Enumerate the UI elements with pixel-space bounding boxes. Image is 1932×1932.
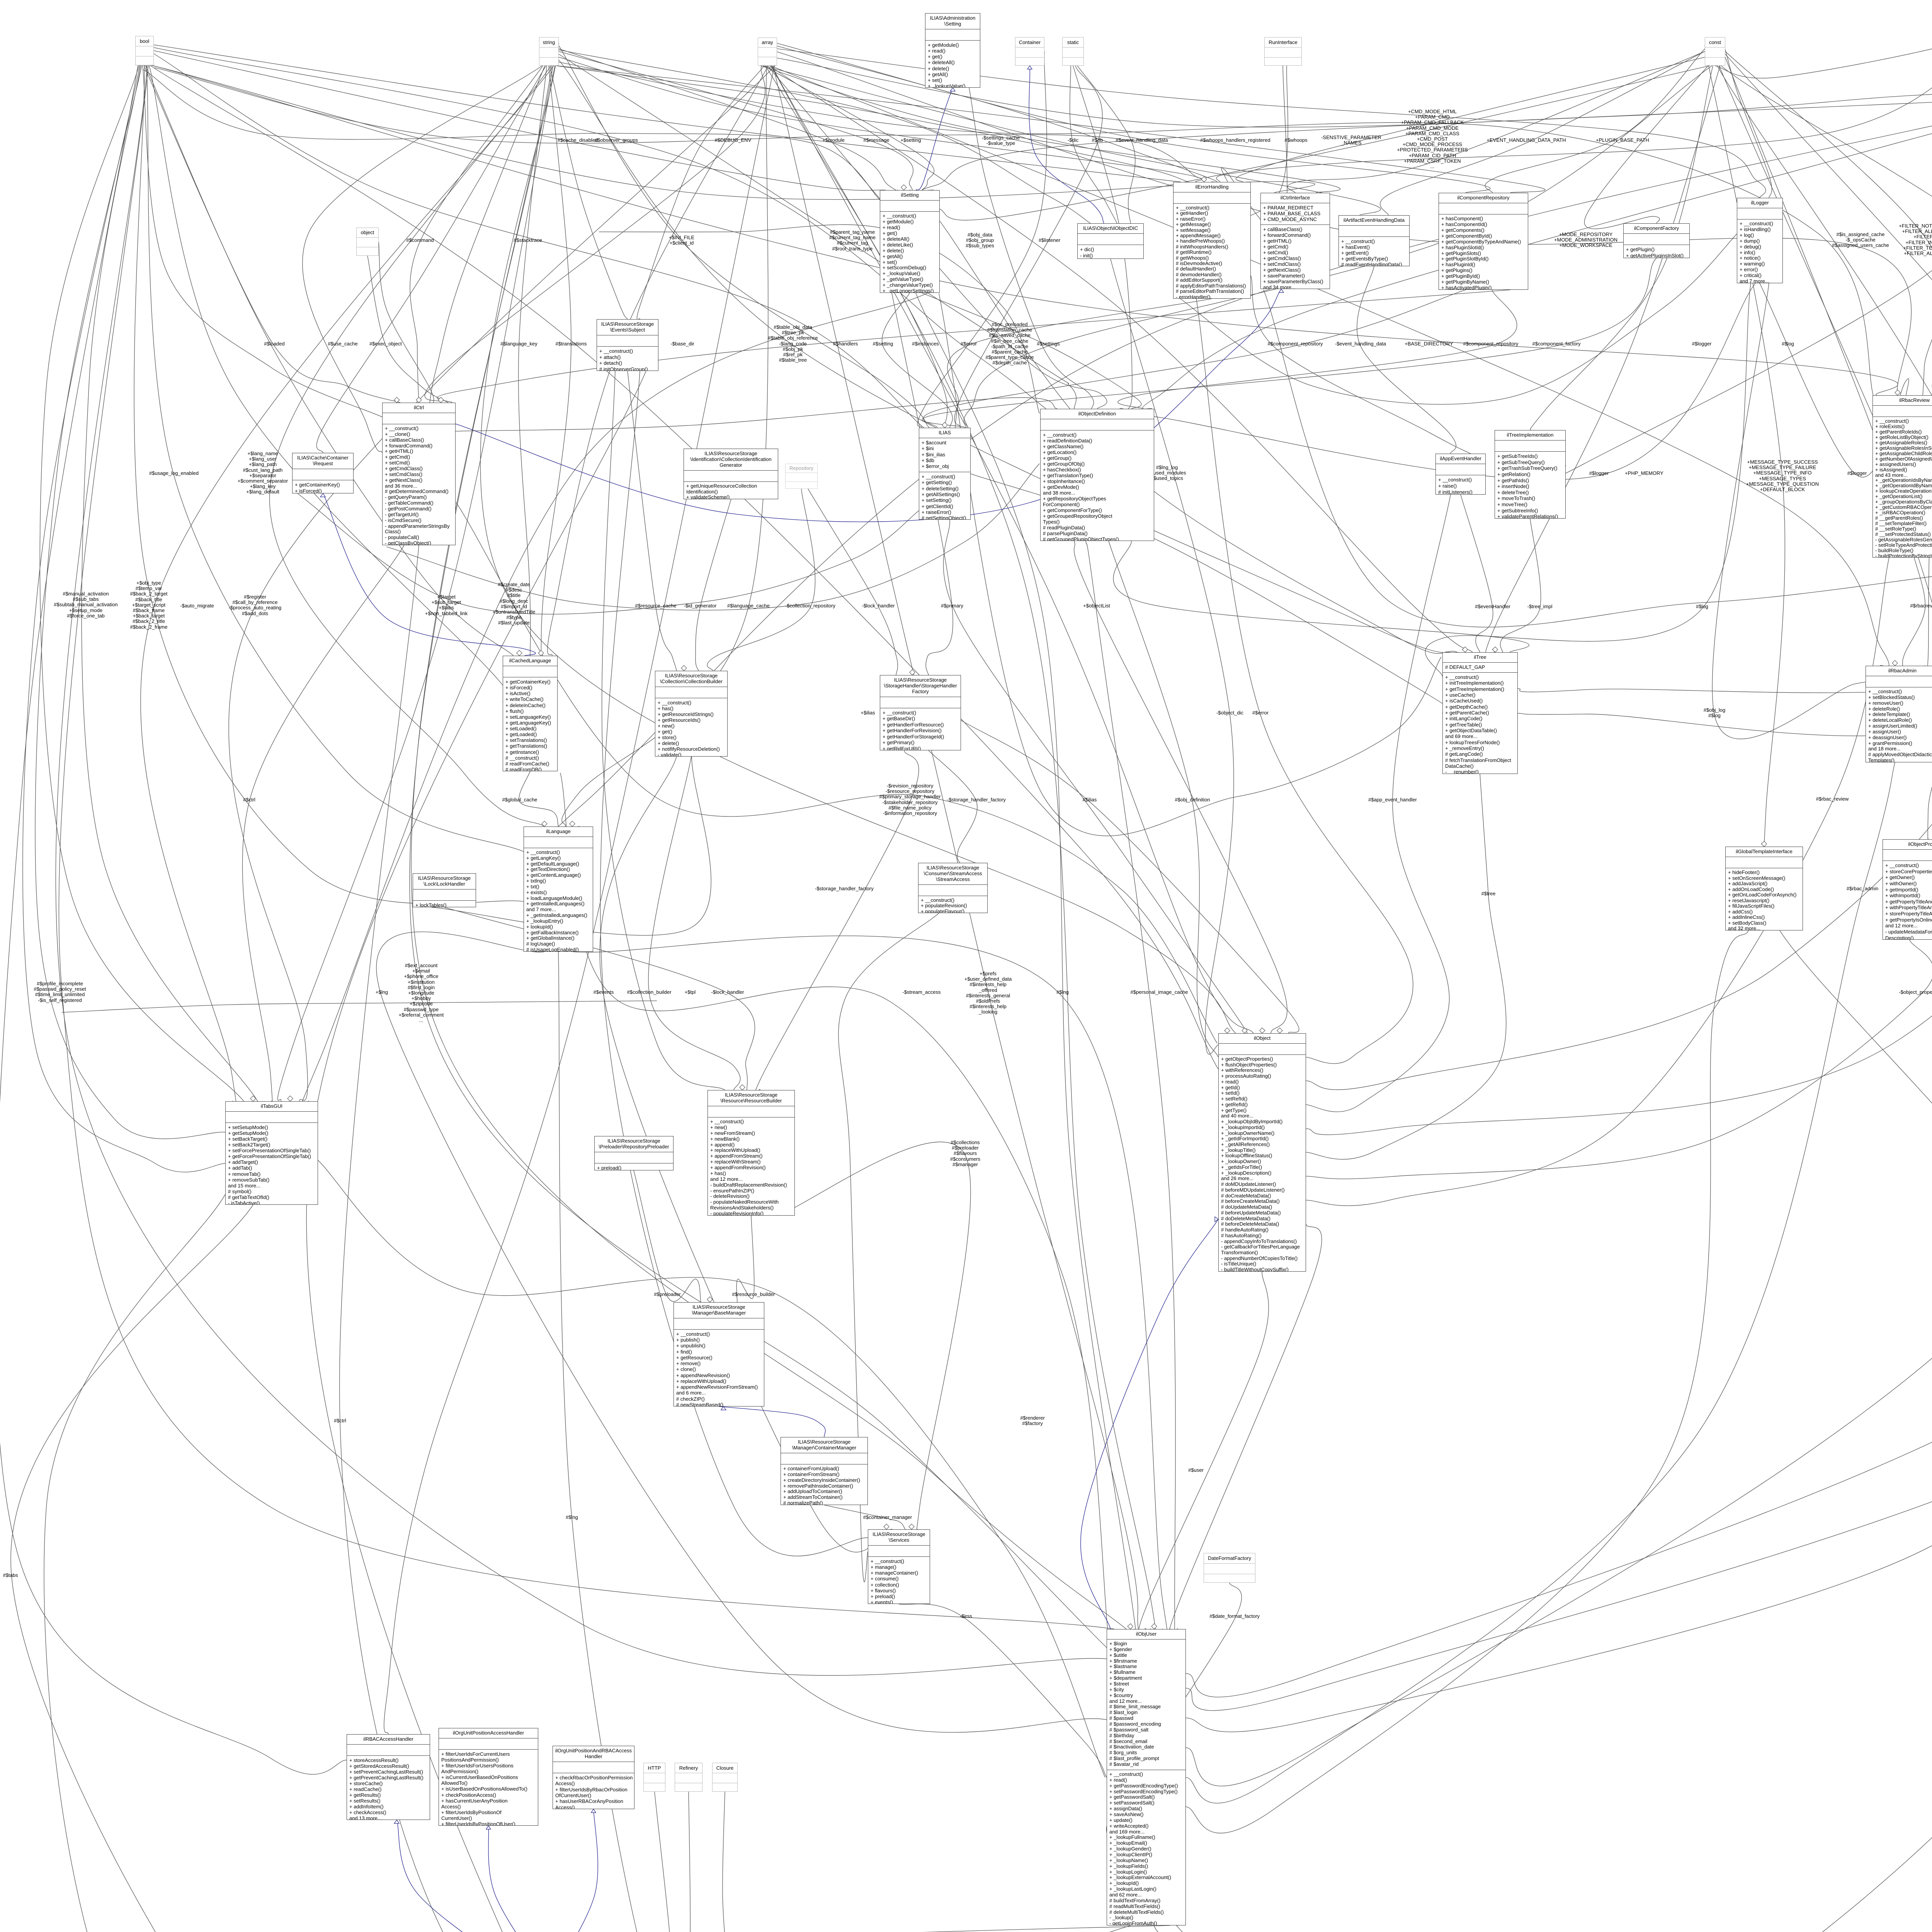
edge label #$collection_builder <box>549 990 750 995</box>
class box StorageHandlerFactory <box>880 675 961 750</box>
edge label +TABLE_OBJECT_DATA +LONG_DESC_LENGTH +TITLE_LENGTH +DESC_LEN <box>1917 595 1932 617</box>
class box const <box>1705 37 1725 66</box>
edge label +$lang_name +$lang_user +$lang_path #$cust_lang_path +$separ <box>162 451 363 495</box>
edge label #$error <box>868 341 1069 347</box>
class box ilComponentFactory <box>1623 223 1690 258</box>
generalization arrowhead <box>394 1820 399 1823</box>
inheritance edge <box>1081 1219 1218 1629</box>
association edge <box>1725 54 1932 598</box>
association edge <box>1705 46 1785 850</box>
edge label #$DEBUG_ENV <box>633 138 833 143</box>
edge label #$cache_disabled <box>477 138 678 143</box>
edge label ‑$revision_repository ‑$resource_repository #$primary_storag <box>810 783 1010 816</box>
edge label #$logger <box>1498 471 1699 476</box>
edge label #$resource_builder <box>653 1292 854 1297</box>
edge label +$objectList <box>996 603 1197 609</box>
edge label ‑$storage_handler_factory <box>744 886 945 891</box>
association edge <box>141 66 554 1118</box>
edge label #$user <box>1095 1468 1296 1473</box>
association edge <box>1236 57 1705 182</box>
association edge <box>340 545 772 1932</box>
association edge <box>769 66 1473 652</box>
class box ilOrgUnitPositionAndRBAC <box>553 1746 634 1809</box>
association edge <box>432 671 711 935</box>
association edge <box>602 371 725 1090</box>
class box ilObjectDIC <box>1077 223 1144 259</box>
class box ilTabsGUI <box>225 1101 318 1205</box>
association edge <box>23 65 225 1172</box>
association edge <box>773 66 1138 1629</box>
association edge <box>550 66 628 319</box>
association edge <box>154 48 1046 409</box>
edge label #$parent_tag_name #$current_tag_name #$current_tag #$root_tr <box>752 230 953 252</box>
edge label #$eventHandler <box>1392 604 1593 609</box>
aggregation diamond at ilTabsGUI <box>287 1096 293 1101</box>
association edge <box>1123 283 1755 480</box>
association edge <box>154 45 1181 182</box>
association edge <box>143 65 382 417</box>
class box ilTree <box>1442 652 1518 774</box>
aggregation diamond at ilObject <box>1277 1028 1282 1033</box>
edge label #$rbac_admin <box>1762 886 1932 891</box>
association edge <box>556 66 1189 182</box>
class box ilObject <box>1218 1033 1306 1272</box>
edge label #$observer_groups <box>516 138 717 143</box>
edge label #$handlers <box>745 341 946 347</box>
association edge <box>411 66 1126 1629</box>
edge label #$ctrl <box>240 1418 440 1423</box>
association edge <box>723 1925 1170 1932</box>
association edge <box>82 65 258 1101</box>
edge label #$lng_log #$used_modules #$used_topics <box>1066 465 1267 481</box>
edge label #$resource_cache <box>555 603 756 609</box>
edge label #$logger <box>1757 471 1932 476</box>
association edge <box>1485 49 1725 656</box>
association edge <box>824 1505 905 1529</box>
edge label #$obj_data #$obj_group #$sub_types <box>879 232 1080 249</box>
association edge <box>600 371 883 1556</box>
aggregation diamond at ilLanguage <box>542 821 547 827</box>
edge label +MESSAGE_TYPE_SUCCESS +MESSAGE_TYPE_FAILURE +MESSAGE_TYPE_IN <box>1682 459 1883 492</box>
edge label #$is_assigned_cache ‑$_opsCache #$assigned_users_cache <box>1760 232 1932 248</box>
edge label #$component_repository <box>1195 341 1396 347</box>
association edge <box>456 502 1217 1043</box>
association edge <box>1070 66 1117 223</box>
association edge <box>753 1925 1189 1932</box>
edge label #$exec_object <box>285 341 486 347</box>
association edge <box>1186 66 1932 1697</box>
association edge <box>1306 495 1451 1112</box>
edge label #$events <box>503 990 704 995</box>
association edge <box>1380 51 1705 215</box>
class box EventsSubject <box>597 319 658 371</box>
inheritance edge <box>456 289 1281 522</box>
aggregation diamond at ILIAS <box>942 422 947 428</box>
edge label #$whoops_handlers_registered <box>1135 138 1336 143</box>
edge label #$register #$call_by_reference ‑$process_auto_reating #$add_ <box>155 594 355 616</box>
class box AdminSetting <box>925 13 980 88</box>
edge label +CMD_MODE_HTML +PARAM_CMD +PARAM_CMD_FALLBACK +PARAM_CMD_MOD <box>1332 109 1533 169</box>
association edge <box>765 66 947 428</box>
aggregation diamond at iCtrl <box>416 397 422 403</box>
edge label #$date_format_factory <box>1134 1614 1335 1619</box>
association edge <box>1179 232 1739 404</box>
aggregation diamond at ilObject <box>1225 1028 1230 1033</box>
association edge <box>1074 541 1287 1033</box>
association edge <box>1186 643 1932 1732</box>
edge label ‑SENSTIVE_PARAMETER _NAMES <box>1251 135 1452 146</box>
class box ilOrgUnitPositionAccessHandler <box>439 1728 538 1826</box>
class box Refinery <box>675 1763 702 1792</box>
association edge <box>548 66 768 656</box>
class box ilTreeImplementation <box>1495 430 1566 519</box>
association edge <box>892 293 953 675</box>
class box ilRbacAdmin <box>1866 666 1932 762</box>
edge label #$ctrl <box>149 797 350 803</box>
association edge <box>154 51 886 190</box>
association edge <box>1118 290 1517 409</box>
association edge <box>1073 66 1132 410</box>
association edge <box>818 1924 1373 1932</box>
edge label +$module <box>733 138 934 143</box>
association edge <box>600 757 893 1552</box>
generalization arrowhead <box>1215 1217 1218 1222</box>
association edge <box>917 51 1047 428</box>
edge label #$oc_preloaded #$translation_cache #$is_saved_cache #$in_tre <box>909 322 1110 366</box>
association edge <box>229 66 775 1101</box>
class box ilRBACAccessHandler <box>347 1734 430 1820</box>
edge label #$event_handling_data <box>1041 138 1242 143</box>
association edge <box>1725 50 1772 198</box>
association edge <box>44 1194 753 1932</box>
association edge <box>40 65 244 1101</box>
association edge <box>1109 541 1218 1057</box>
edge label +$setting <box>810 138 1011 143</box>
edge label #$obj_definition <box>1092 797 1293 803</box>
association edge <box>961 720 1299 1033</box>
association edge <box>922 293 1141 409</box>
association edge <box>559 54 1076 409</box>
class box StreamAccess <box>918 863 988 913</box>
association edge <box>634 1170 701 1302</box>
association edge <box>707 489 815 671</box>
association edge <box>1287 43 1725 193</box>
association edge <box>1251 276 1471 454</box>
aggregation diamond at ilCachedLanguage <box>517 650 522 656</box>
association edge <box>772 66 1156 1639</box>
association edge <box>270 66 551 827</box>
edge label #$rbacreview <box>1825 603 1932 609</box>
class box ilArtifactEventHandlingData <box>1338 215 1410 266</box>
edge label #$db <box>997 138 1198 143</box>
edge label #$profile_incomplete #$passwd_policy_reset #$time_limit_unli <box>0 981 160 1003</box>
association edge <box>242 545 404 1105</box>
association edge <box>0 65 347 1774</box>
association edge <box>882 293 952 428</box>
association edge <box>56 65 1107 1675</box>
association edge <box>922 258 1656 428</box>
aggregation diamond at ilErrorHandling <box>1201 177 1207 182</box>
association edge <box>410 66 1121 1662</box>
association edge <box>1168 1224 1321 1637</box>
aggregation diamond at ResourceBuilder <box>740 1085 745 1090</box>
association edge <box>1064 1925 1131 1932</box>
edge label ‑$id_generator <box>600 603 801 609</box>
association edge <box>150 65 1218 1069</box>
edge label +$obj_type #$temp_var #$back_2_target #$back_title +$target_ <box>48 580 249 630</box>
association edge <box>943 520 1248 1035</box>
association edge <box>1518 65 1932 693</box>
aggregation diamond at iCtrl <box>438 397 444 403</box>
edge label +$tpl <box>590 990 791 995</box>
edge label #$rbac_review <box>1732 796 1932 802</box>
class box ilSetting <box>880 190 940 293</box>
association edge <box>560 773 1109 1642</box>
association edge <box>376 932 1130 1732</box>
edge label #$collections #$preloader #$flavours #$consumers #$manager <box>865 1140 1066 1167</box>
edge label #$usage_log_enabled <box>73 471 274 476</box>
association edge <box>628 371 677 671</box>
association edge <box>425 66 765 403</box>
association edge <box>1111 259 1234 1054</box>
edge label #$component_repository <box>1390 341 1591 347</box>
class box object <box>356 228 379 256</box>
edge label ‑$dic <box>973 138 1173 143</box>
association edge <box>947 299 1212 428</box>
edge label +$prefs +$user_defined_data #$interests_help _offered #$inte <box>888 971 1088 1015</box>
association edge <box>923 290 1466 428</box>
association edge <box>306 371 766 1932</box>
association edge <box>696 499 731 671</box>
edge label #$app_event_handler <box>1292 797 1493 803</box>
class box DateFormatFactory <box>1204 1553 1255 1583</box>
edge label #$language_cache <box>648 603 849 609</box>
aggregation diamond at ilTabsGUI <box>250 1096 256 1101</box>
class box bool <box>135 36 154 65</box>
association edge <box>1715 2 1932 78</box>
association edge <box>562 66 768 827</box>
association edge <box>59 65 1114 1629</box>
edge label ‑$lock_handler <box>778 603 979 609</box>
association edge <box>760 66 1340 193</box>
association edge <box>1425 283 1751 677</box>
association edge <box>1306 66 1932 1090</box>
class box ilObjUser <box>1107 1629 1186 1925</box>
edge label ‑$lock_handler <box>627 990 828 995</box>
edge label #$table_obj_data #$tree_pk #$table_obj_reference ‑$lang_code <box>692 325 893 363</box>
association edge <box>384 66 774 1734</box>
association edge <box>777 43 1490 193</box>
edge label #$use_cache <box>242 341 443 347</box>
edge label +$target +$sub_target +$tabs +$non_tabbed_link <box>346 594 547 616</box>
association edge <box>559 51 913 190</box>
association edge <box>771 66 1253 1033</box>
edge label #$global_cache <box>419 797 620 803</box>
association edge <box>155 68 1198 178</box>
association edge <box>1461 495 1493 652</box>
inheritance edge <box>916 88 953 190</box>
association edge <box>777 1142 971 1541</box>
edge label +BASE_DIRECTORY <box>1328 341 1529 347</box>
association edge <box>599 224 1039 413</box>
class box ilObjectDefinition <box>1040 409 1154 541</box>
association edge <box>559 50 1090 223</box>
association edge <box>755 750 919 1093</box>
edge label #$stacktrace <box>427 238 628 243</box>
association edge <box>1139 1272 1269 1632</box>
association edge <box>1264 290 1932 627</box>
generalization arrowhead <box>1279 289 1284 293</box>
aggregation diamond at ilCachedLanguage <box>538 650 544 656</box>
edge label #$log <box>1687 341 1888 347</box>
association edge <box>736 1216 754 1302</box>
association edge <box>655 1792 670 1932</box>
association edge <box>1186 762 1895 1803</box>
association edge <box>295 293 928 1123</box>
association edge <box>1500 519 1541 652</box>
edge label #$log <box>1602 604 1803 609</box>
association edge <box>149 65 520 709</box>
association edge <box>559 49 898 190</box>
edge label +EVENT_HANDLING_DATA_PATH <box>1426 138 1627 143</box>
association edge <box>480 43 1236 1033</box>
association edge <box>278 66 555 1101</box>
inheritance edge <box>397 1820 535 1932</box>
edge label #$logger <box>1601 341 1802 347</box>
edge label ‑$storage_handler_factory <box>876 797 1077 803</box>
edge label #$ext_account +$email +$phone_office +$institution #$first_l <box>321 963 522 1023</box>
association edge <box>916 293 1138 1645</box>
inheritance edge <box>719 1406 825 1437</box>
association edge <box>648 757 740 1090</box>
aggregation diamond at ilGlobalTemplateInterface <box>1761 841 1767 847</box>
association edge <box>1186 65 1932 1711</box>
association edge <box>808 489 898 675</box>
association edge <box>1077 66 1135 223</box>
association edge <box>145 65 514 656</box>
inheritance edge <box>1029 66 1104 223</box>
association edge <box>767 66 1107 409</box>
association edge <box>572 936 1170 1657</box>
association edge <box>1186 930 1748 1833</box>
association edge <box>316 66 546 453</box>
edge label #$create_date #$desc #$title #$long_desc #$import_id +$untra <box>413 582 614 626</box>
aggregation diamond at iCtrl <box>394 397 400 403</box>
aggregation diamond at StorageHandlerFactory <box>910 670 915 675</box>
class box CacheRequest <box>292 453 354 493</box>
edge label #$setting <box>782 341 983 347</box>
association edge <box>151 65 1315 199</box>
edge label #$ilias <box>989 797 1190 803</box>
association edge <box>152 65 1898 395</box>
edge label #$component_factory <box>1456 341 1657 347</box>
association edge <box>519 771 558 827</box>
association edge <box>777 52 1911 395</box>
association edge <box>1113 541 1529 652</box>
association edge <box>1143 65 1932 409</box>
association edge <box>1357 266 1456 454</box>
class box string <box>539 37 559 66</box>
edge label +FILTER_NOT_INTERNAL +FILTER_ALL_GLOBAL +FILTER_ALL +FILTER_ <box>1829 223 1932 256</box>
association edge <box>134 65 524 904</box>
association edge <box>1306 558 1889 1206</box>
association edge <box>1196 299 1413 1064</box>
association edge <box>294 491 920 614</box>
association edge <box>899 1604 1107 1777</box>
aggregation diamond at Services <box>909 1524 914 1529</box>
association edge <box>1584 46 1725 229</box>
association edge <box>923 100 1932 190</box>
class box Container <box>1015 37 1044 66</box>
association edge <box>777 46 1217 182</box>
association edge <box>62 1001 657 1012</box>
aggregation diamond at ilRbacReview <box>1895 390 1900 395</box>
association edge <box>144 65 400 403</box>
class box ilObjectProperties <box>1883 839 1932 940</box>
class box ilAppEventHandler <box>1435 454 1486 495</box>
association edge <box>838 913 939 1582</box>
class box CollectionBuilder <box>655 671 728 757</box>
association edge <box>1086 541 1175 1645</box>
aggregation diamond at ilTree <box>1492 647 1498 652</box>
association edge <box>557 66 1545 193</box>
class box array <box>758 37 777 66</box>
association edge <box>1925 100 1932 671</box>
edge label ‑$auto_migrate <box>97 603 298 609</box>
class box ilErrorHandling <box>1173 182 1251 299</box>
class box LockHandler <box>413 873 476 907</box>
association edge <box>777 58 1932 127</box>
association edge <box>723 1792 726 1932</box>
edge label ‑$event_handling_data <box>1260 341 1461 347</box>
association edge <box>543 100 1932 845</box>
aggregation diamond at Services <box>884 1524 889 1529</box>
generalization arrowhead <box>320 493 325 497</box>
edge label #$db <box>1913 341 1932 347</box>
association edge <box>541 66 571 656</box>
generalization arrowhead <box>486 1826 491 1829</box>
edge label ‑$collection_repository <box>710 603 911 609</box>
edge label ‑$irss <box>866 1614 1066 1619</box>
aggregation diamond at ilRbacAdmin <box>1892 660 1898 666</box>
aggregation diamond at ilObjUser <box>1151 1624 1157 1629</box>
association edge <box>1186 100 1932 1786</box>
edge label #$message <box>776 138 977 143</box>
edge label #$instances <box>825 341 1026 347</box>
class box HTTP <box>643 1763 665 1792</box>
aggregation diamond at ilTree <box>1462 647 1468 652</box>
edge label ‑$object_dic <box>1129 710 1330 716</box>
association edge <box>367 256 448 403</box>
edge label ‑$object_properties <box>1820 990 1932 995</box>
association edge <box>1518 100 1932 736</box>
association edge <box>971 474 1454 714</box>
generalization arrowhead <box>1027 66 1032 69</box>
association edge <box>1306 65 1932 1135</box>
edge label ‑$base_dir <box>582 341 783 347</box>
class box Repository <box>785 464 818 489</box>
class box ilCtrlInterface <box>1260 193 1330 289</box>
edge label #$whoops <box>1196 138 1396 143</box>
aggregation diamond at CollectionBuilder <box>681 665 687 671</box>
edge label #$language_key <box>418 341 619 347</box>
edge label +$ilias <box>767 710 968 716</box>
association edge <box>559 60 1458 653</box>
association edge <box>1760 283 1909 477</box>
edge label #$lng <box>471 1515 672 1520</box>
edge label #$tabs <box>0 1573 111 1578</box>
association edge <box>154 54 924 428</box>
